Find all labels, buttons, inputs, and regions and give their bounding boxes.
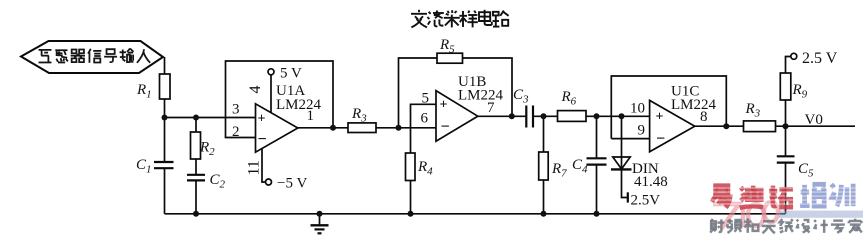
svg-text:2: 2 bbox=[232, 124, 240, 140]
svg-text:2.5 V: 2.5 V bbox=[802, 50, 838, 67]
svg-text:C4: C4 bbox=[572, 157, 588, 176]
svg-text:7: 7 bbox=[487, 100, 495, 116]
svg-text:R9: R9 bbox=[792, 82, 808, 101]
svg-text:11: 11 bbox=[246, 160, 263, 175]
svg-text:−5 V: −5 V bbox=[277, 176, 307, 192]
svg-text:C5: C5 bbox=[798, 161, 814, 180]
svg-text:R2: R2 bbox=[199, 140, 215, 159]
svg-text:10: 10 bbox=[630, 101, 645, 117]
svg-text:LM224: LM224 bbox=[671, 97, 717, 113]
svg-text:R5: R5 bbox=[439, 37, 455, 56]
svg-text:R3: R3 bbox=[351, 106, 367, 125]
svg-text:R4: R4 bbox=[417, 159, 433, 178]
svg-text:LM224: LM224 bbox=[276, 97, 322, 113]
svg-text:4: 4 bbox=[247, 86, 264, 94]
svg-text:1: 1 bbox=[307, 108, 315, 124]
svg-text:R3: R3 bbox=[745, 101, 761, 120]
svg-text:6: 6 bbox=[421, 111, 429, 127]
svg-text:+: + bbox=[258, 112, 266, 127]
svg-text:C2: C2 bbox=[210, 172, 226, 191]
svg-text:−: − bbox=[258, 131, 267, 148]
svg-text:−: − bbox=[656, 131, 665, 148]
svg-text:5 V: 5 V bbox=[280, 66, 302, 82]
svg-text:R7: R7 bbox=[551, 161, 567, 180]
svg-text:3: 3 bbox=[232, 102, 240, 118]
svg-text:+: + bbox=[656, 110, 664, 125]
svg-text:8: 8 bbox=[700, 109, 708, 125]
svg-text:9: 9 bbox=[638, 123, 646, 139]
svg-text:R1: R1 bbox=[136, 82, 152, 101]
svg-text:R6: R6 bbox=[561, 89, 577, 108]
svg-text:−: − bbox=[441, 119, 450, 136]
svg-text:V0: V0 bbox=[805, 112, 823, 128]
svg-text:LM224: LM224 bbox=[458, 88, 504, 104]
svg-text:C1: C1 bbox=[136, 157, 152, 176]
svg-text:5: 5 bbox=[422, 91, 430, 107]
svg-text:+: + bbox=[440, 98, 448, 113]
svg-text:41.48: 41.48 bbox=[634, 174, 668, 190]
svg-text:C3: C3 bbox=[513, 87, 529, 106]
svg-text:2.5V: 2.5V bbox=[631, 193, 661, 209]
